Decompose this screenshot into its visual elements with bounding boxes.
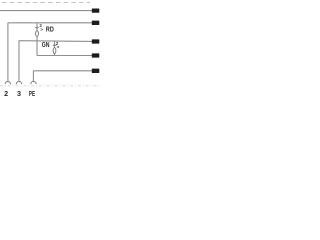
svg-text:GN: GN: [42, 41, 50, 49]
svg-text:PE: PE: [29, 89, 35, 98]
pin 2 contact arc: [5, 81, 10, 84]
twist symbol 1 vertical drop from RD wire: [36, 23, 39, 56]
wire GN horizontal: [19, 40, 92, 43]
twist symbol 1 loop: [36, 31, 39, 37]
twist symbol 2 loop: [53, 48, 56, 54]
ferrule F3: [92, 39, 100, 43]
wire RD horizontal: [8, 22, 92, 24]
svg-text:2: 2: [4, 89, 8, 98]
wire PE horizontal: [34, 70, 93, 72]
ferrule F5: [92, 53, 100, 57]
twist symbol 1 tick: [35, 27, 39, 29]
svg-text:3: 3: [17, 89, 21, 98]
svg-text:>: >: [57, 44, 60, 50]
pin PE contact arc: [31, 81, 36, 84]
svg-text:>: >: [40, 27, 43, 33]
pin 3 contact arc: [16, 81, 21, 84]
top dashed crop line: [2, 2, 90, 4]
wire RD from pin 2: vertical: [7, 23, 9, 81]
connector mating face dash-dot line: [0, 85, 100, 87]
ferrule F2: [92, 21, 100, 25]
background: [0, 0, 100, 100]
ferrule F1: [92, 8, 100, 12]
twist symbol 2 tick: [53, 44, 57, 46]
wire GN from pin 3: vertical: [18, 41, 21, 81]
ferrule F6: [92, 69, 100, 73]
wire PE vertical: [32, 71, 35, 82]
twist symbol 2 vertical drop from GN wire: [54, 41, 56, 56]
wire L1 (cropped wire from left edge): [0, 10, 93, 12]
wire shield/pair line L5: [37, 55, 93, 57]
svg-text:RD: RD: [46, 26, 54, 34]
